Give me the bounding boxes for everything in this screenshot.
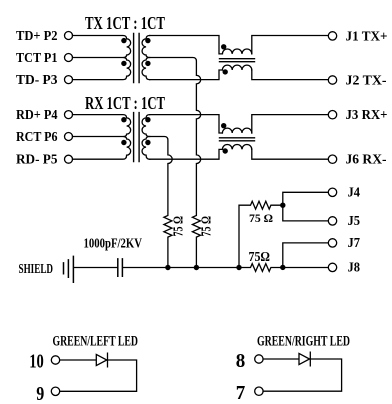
pin P4	[65, 111, 73, 119]
svg-text:GREEN/RIGHT LED: GREEN/RIGHT LED	[257, 334, 350, 350]
LED right pin 7 circle	[255, 387, 263, 395]
polarity dot T2 primary top	[121, 117, 126, 122]
junction R3 rail	[236, 265, 241, 270]
wire RX center tap with hop and resistor R1	[150, 137, 173, 268]
svg-text:75 Ω: 75 Ω	[200, 216, 215, 237]
svg-text:TX 1CT : 1CT: TX 1CT : 1CT	[85, 13, 165, 33]
transformer T1 TX secondary winding	[142, 36, 150, 80]
choke L2 core	[220, 138, 255, 141]
pin P3	[65, 76, 73, 84]
svg-text:GREEN/LEFT LED: GREEN/LEFT LED	[53, 334, 139, 350]
choke L1 top winding	[222, 49, 251, 54]
polarity dot T2 primary bottom	[121, 140, 126, 145]
choke L2 top winding	[222, 128, 251, 133]
wire bracket J4 J5	[283, 192, 329, 221]
svg-text:RX 1CT : 1CT: RX 1CT : 1CT	[85, 93, 165, 113]
wire RX secondary bottom to choke L2 and J6	[150, 149, 329, 159]
polarity dot T1 secondary top	[145, 38, 150, 43]
polarity dot T1 primary bottom	[121, 61, 126, 66]
polarity dot T1 secondary bottom	[145, 61, 150, 66]
transformer T1 TX core	[134, 34, 140, 83]
LED left pin 10 circle	[51, 356, 59, 364]
junction R2 rail	[194, 265, 199, 270]
svg-text:TCT P1: TCT P1	[16, 51, 58, 66]
svg-text:SHIELD: SHIELD	[19, 262, 54, 277]
svg-text:RD- P5: RD- P5	[16, 153, 58, 168]
choke L2 bottom winding	[222, 145, 251, 150]
svg-text:J6 RX-: J6 RX-	[346, 153, 387, 168]
wire LED D1 loop	[60, 360, 137, 391]
choke L1 core	[220, 59, 255, 62]
transformer T2 RX secondary winding	[142, 115, 150, 160]
polarity dot L1 top	[221, 44, 226, 49]
pin P6	[65, 133, 73, 141]
pin J5	[328, 217, 336, 225]
wire TX secondary top to choke L1 and J1	[150, 36, 329, 54]
svg-text:9: 9	[36, 383, 44, 404]
wire LED D2 loop	[263, 359, 342, 391]
svg-text:8: 8	[236, 350, 246, 372]
junction J8 rail	[280, 265, 285, 270]
wire shield to capacitor C1	[74, 267, 117, 269]
svg-text:J7: J7	[348, 236, 361, 251]
pin J7	[328, 239, 336, 247]
svg-text:TD+ P2: TD+ P2	[16, 29, 58, 44]
choke L1 bottom winding	[222, 65, 251, 70]
LED right pin 8 circle	[255, 355, 263, 363]
wire TX center tap with hops and resistor R2	[150, 58, 201, 268]
svg-text:J2 TX-: J2 TX-	[346, 74, 387, 89]
LED D2 green/right	[263, 352, 310, 366]
junction R1 rail	[165, 265, 170, 270]
svg-text:RD+ P4: RD+ P4	[16, 108, 58, 123]
svg-text:J8: J8	[348, 261, 361, 276]
wire TX secondary bottom to choke L1 and J2	[150, 70, 329, 80]
center tap ground rail with resistor R4	[123, 264, 328, 272]
svg-text:TD- P3: TD- P3	[16, 73, 58, 88]
pin J4	[328, 188, 336, 196]
LED D1 green/left	[60, 353, 108, 367]
transformer T2 RX primary winding	[73, 115, 131, 160]
polarity dot L2 bottom	[223, 148, 228, 153]
pin J2	[328, 76, 336, 84]
junction J4 J5 bracket	[280, 203, 285, 208]
pin P2	[65, 32, 73, 40]
svg-text:J5: J5	[348, 214, 361, 229]
capacitor C1 plates	[118, 259, 123, 276]
wire bracket J7 J8	[283, 243, 329, 268]
svg-text:J1 TX+: J1 TX+	[346, 30, 388, 45]
svg-text:75 Ω: 75 Ω	[249, 211, 273, 225]
wire RX secondary top to choke L2 and J3	[150, 115, 329, 133]
svg-text:7: 7	[236, 382, 246, 404]
polarity dot L2 top	[221, 123, 226, 128]
LED left pin 9 circle	[51, 387, 59, 395]
svg-text:J4: J4	[348, 186, 361, 201]
svg-text:J3 RX+: J3 RX+	[346, 108, 388, 123]
pin P1	[65, 54, 73, 62]
shield ground symbol	[64, 256, 74, 282]
transformer T1 TX primary winding	[73, 36, 131, 80]
svg-text:75 Ω: 75 Ω	[172, 216, 187, 237]
pin P5	[65, 155, 73, 163]
resistor R3 branch to J4 J5	[239, 201, 283, 267]
svg-text:10: 10	[29, 351, 44, 373]
pin J8	[328, 263, 336, 271]
polarity dot T1 primary top	[121, 38, 126, 43]
pin J3	[328, 111, 336, 119]
pin J1	[328, 32, 336, 40]
polarity dot T2 secondary bottom	[145, 140, 150, 145]
transformer T2 RX core	[134, 113, 140, 162]
svg-text:RCT P6: RCT P6	[16, 130, 58, 145]
pin J6	[328, 155, 336, 163]
polarity dot L1 bottom	[223, 69, 228, 74]
polarity dot T2 secondary top	[145, 117, 150, 122]
svg-text:75Ω: 75Ω	[249, 250, 271, 265]
svg-text:1000pF/2KV: 1000pF/2KV	[84, 236, 143, 251]
